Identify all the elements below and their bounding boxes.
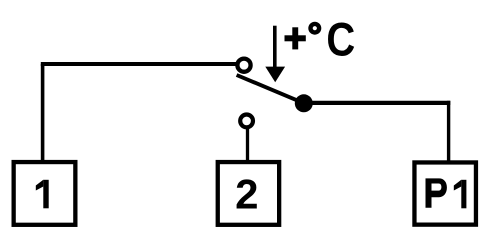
wire: left horizontal from corner to open contact circle [41,62,237,66]
contact: fixed contact circle (terminal 1 side, open) [237,59,250,72]
label: plus sign of +°C [285,27,306,49]
svg-text:C: C [326,14,355,66]
terminal 1 [14,162,76,225]
contact: fixed contact circle above terminal 2 (open) [240,115,253,128]
terminal P1 [414,162,476,224]
label: degree sign of +°C [311,24,320,33]
wire: right horizontal from pivot to corner [304,101,451,105]
wire: vertical from contact 2 down to terminal 2 [246,128,249,162]
svg-text:2: 2 [235,170,258,217]
actuation arrow (temperature rise) [265,26,285,82]
switch lever (movable blade) [237,75,304,103]
wire: left vertical from corner node down to terminal 1 [41,64,45,162]
junction dot: common pivot node [295,94,313,112]
label: C of +°C [326,14,355,66]
terminal 2 [218,162,279,225]
wire: right vertical down to terminal P1 [447,101,450,163]
